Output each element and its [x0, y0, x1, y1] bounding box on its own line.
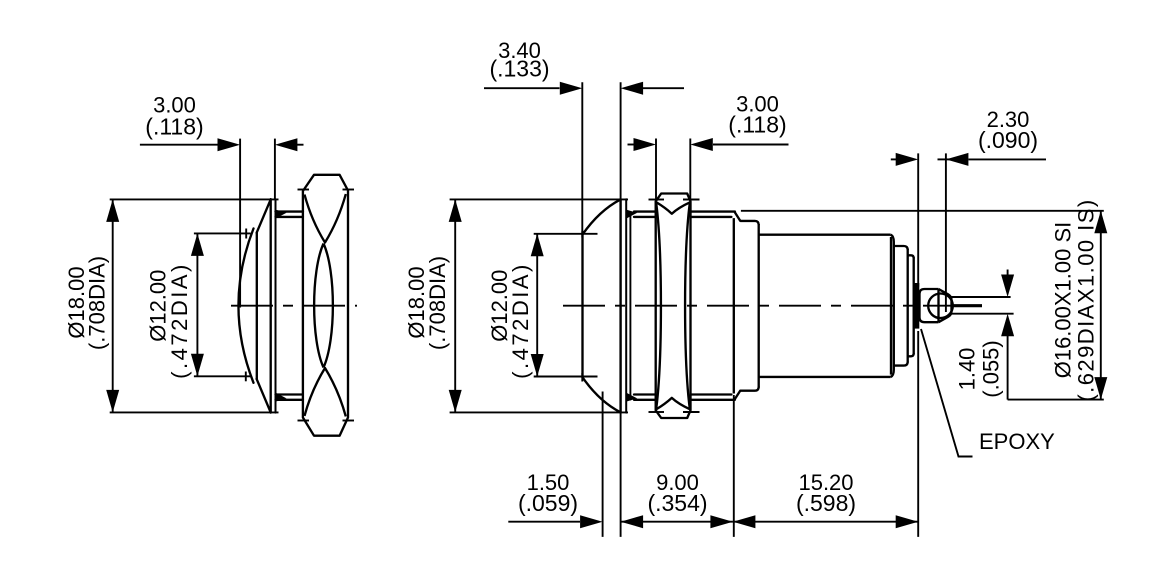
right view nut chamfer tick top right [683, 199, 700, 201]
right view terminal hex tip [939, 289, 952, 322]
dim Ø18 right: arrow up [449, 199, 462, 222]
dim Ø18 right: top extension line [450, 198, 628, 200]
dim 3.00 right: arrow left-pointing [690, 138, 713, 151]
dim 2.30: cross tick [938, 158, 954, 160]
dim 3.40: arrow left-pointing [621, 82, 644, 95]
right view epoxy fill band [914, 283, 919, 329]
dim Ø12 right: arrow down [531, 354, 544, 377]
right view collar top [740, 221, 759, 225]
dim Ø18 right: bottom extension line [450, 411, 628, 413]
right view terminal pin [952, 304, 983, 307]
svg-text:(.059): (.059) [518, 490, 578, 516]
right view ring2 face [907, 249, 909, 363]
dim 2.30: tail right [969, 158, 1047, 160]
left view hex nut outline [303, 175, 348, 436]
dim 1.40: top extension line [952, 296, 1011, 298]
dim Ø16 thread: arrow up [1094, 211, 1107, 234]
dim Ø12 left: arc tick top [245, 229, 247, 239]
dim 2.30: extension line terminal [945, 153, 947, 312]
dim 3.00 right: arrow right-pointing [634, 138, 657, 151]
right view thread chamfer wedge bottom [626, 393, 637, 402]
left view thread chamfer wedge top [276, 210, 287, 219]
svg-text:(.055): (.055) [979, 340, 1004, 397]
svg-text:(.133): (.133) [489, 56, 549, 82]
left view thread neck bottom lines [276, 393, 303, 395]
svg-text:(.598): (.598) [796, 490, 856, 516]
dim Ø18 right: arrow down [449, 390, 462, 413]
right view hex nut outline [656, 194, 691, 419]
left view nut chamfer tick top left [298, 189, 310, 191]
right view flange front face [619, 199, 621, 412]
left view lens cone bottom slant [257, 379, 271, 413]
right view thread neck lines bottom (flange to nut) [634, 393, 656, 395]
epoxy leader line [921, 329, 973, 457]
bottom dims: dimension line 15.20 [733, 521, 918, 523]
left view nut chamfer tick bottom right [343, 420, 355, 422]
right view nut bottom chamfer arc [656, 398, 690, 409]
dim Ø16 thread: dimension line [1100, 211, 1102, 400]
dim Ø12 right: bottom extension line [534, 376, 598, 378]
dim Ø12 left: bottom extension line [194, 375, 251, 377]
dim Ø16 thread: bottom extension line [1008, 399, 1104, 401]
dim Ø12 left: dimension line [196, 233, 198, 376]
dim Ø12 left: arrow up [191, 233, 204, 256]
svg-text:Ø16.00X1.00 SI: Ø16.00X1.00 SI [1051, 222, 1076, 379]
right view nut chamfer tick bottom left [649, 411, 665, 413]
bottom dims: extension line lens skirt [602, 392, 604, 537]
svg-text:(.472DIA): (.472DIA) [167, 262, 192, 379]
right view nut right facet curve [685, 203, 690, 409]
left view nut middle facet left curve [314, 244, 323, 368]
dim 1.50: arrow right-pointing [580, 515, 603, 528]
dim 3.00 left: arrow right-pointing [218, 138, 241, 151]
right view thread chamfer wedge top [626, 210, 637, 219]
left view lens base edge [256, 233, 258, 379]
dim 1.40: arrow up [1001, 314, 1014, 337]
dim Ø18 left: bottom extension line [110, 411, 279, 413]
dim 1.40: arrow down [1001, 275, 1014, 298]
dim Ø18 left: arrow up [106, 199, 119, 222]
dim Ø12 right: arrow up [531, 234, 544, 256]
svg-text:EPOXY: EPOXY [979, 429, 1055, 454]
dim 3.40: extension line lens face [581, 82, 583, 237]
dim 2.30: tail left [891, 158, 897, 160]
dim Ø12 left: arc tick bottom [245, 372, 247, 382]
svg-text:(.118): (.118) [145, 114, 203, 140]
right view can rear inner line [890, 237, 892, 375]
right view terminal stadium body [920, 289, 939, 322]
right view lens dome bottom slant [583, 377, 621, 412]
right view ring3 face [913, 257, 915, 354]
right view thread end chamfer bottom [735, 391, 740, 399]
dim 1.40: bottom extension line [952, 313, 1014, 315]
dim 3.00 right: tail right [713, 144, 789, 146]
right view terminal joint line [937, 289, 939, 322]
dim 3.00 left: extension line at flange back [274, 139, 276, 199]
dim 1.40: upper arrow line [1007, 270, 1009, 276]
left view lens cone top slant [257, 199, 271, 232]
right view terminal ball circle [928, 294, 953, 319]
dim Ø18 left: top extension line [110, 198, 279, 200]
right view can front face [758, 224, 760, 388]
svg-text:(.354): (.354) [647, 490, 707, 516]
svg-text:1.40: 1.40 [955, 348, 980, 391]
right view lens front face [581, 232, 583, 376]
right view lens dome top slant [583, 199, 621, 234]
svg-text:(.090): (.090) [978, 127, 1038, 153]
bottom dims: dimension line 9.00 [621, 521, 733, 523]
left view flange front face [270, 199, 272, 412]
dim 3.00 right: extension line nut right [689, 139, 691, 200]
dim 3.40: arrow right-pointing [560, 82, 583, 95]
left view nut chamfer tick bottom left [298, 420, 310, 422]
left view nut bottom chamfer arc [305, 368, 346, 416]
dim Ø18 left: dimension line [112, 199, 114, 412]
dim Ø12 left: arrow down [191, 354, 204, 377]
right view can bottom edge [759, 376, 891, 378]
dim 3.40: dimension line tail left [484, 87, 560, 89]
dim Ø18 right: dimension line [454, 199, 456, 412]
dim 3.00 left: arrow left-pointing [275, 138, 298, 151]
left view flange back face [275, 199, 277, 412]
dim 2.30: extension line epoxy face [917, 153, 919, 286]
right view thread end chamfer top [735, 212, 740, 220]
dim 3.40: tail right [642, 87, 684, 89]
right view can rear face with chamfers [891, 235, 894, 377]
dim 2.30: arrow right-pointing [896, 153, 919, 166]
svg-text:(.472DIA): (.472DIA) [508, 262, 533, 379]
dim 3.40: lens face lower stub [581, 373, 583, 382]
bottom dims: tail left of 1.50 [508, 521, 580, 523]
right view collar bottom [740, 387, 759, 391]
right view can top edge [759, 234, 891, 236]
dim 15.20: arrow left-pointing [733, 515, 756, 528]
dim Ø18 left: arrow down [106, 390, 119, 413]
right view nut chamfer tick top left [649, 199, 665, 201]
dim Ø16 thread: top extension line [741, 210, 1104, 212]
bottom dims: extension line epoxy face (below) [917, 331, 919, 537]
dim 15.20: arrow right-pointing [896, 515, 919, 528]
svg-text:(.708DIA): (.708DIA) [425, 256, 450, 350]
dim 3.00 right: tail left [628, 144, 634, 146]
right view ring3 bottom [908, 353, 914, 356]
svg-text:(.629DIAX1.00 IS): (.629DIAX1.00 IS) [1074, 198, 1099, 401]
left view nut top chamfer arc [305, 194, 346, 243]
dim Ø12 left: top extension line [194, 232, 251, 234]
left view nut chamfer tick top right [343, 189, 355, 191]
dim 9.00: arrow right-pointing [710, 515, 733, 528]
bottom dims: extension line bushing face (below) [733, 395, 735, 537]
right view ring3 top [908, 255, 914, 258]
right view thread neck lines bottom (nut to bushing) [691, 399, 735, 401]
dim Ø12 right: top extension line [534, 233, 598, 235]
left view thread neck top lines [276, 210, 303, 212]
dim 3.00 left: extension line at dome apex [239, 139, 241, 308]
right view gasket line [629, 212, 631, 400]
right view ring2 top [894, 246, 908, 250]
left view thread chamfer wedge bottom [276, 393, 287, 402]
dim 3.00 right: extension line nut left [655, 139, 657, 200]
right view nut chamfer tick bottom right [683, 411, 700, 413]
left view lens dome arc [238, 229, 253, 383]
right view centerline [563, 305, 952, 307]
svg-text:(.118): (.118) [728, 112, 786, 138]
dim 3.00 left: tail right [297, 144, 304, 146]
dim 1.40: lower arrow line [1007, 336, 1009, 400]
left view nut middle facet right curve [324, 244, 333, 368]
right view nut top chamfer arc [656, 202, 690, 213]
right view thread neck lines top (flange to nut) [634, 210, 656, 212]
dim 2.30: arrow left-pointing [946, 153, 969, 166]
dim Ø12 right: dimension line [536, 234, 538, 377]
dim 3.00 left: dimension line left part [140, 144, 218, 146]
right view flange back face [625, 199, 627, 412]
dim 3.40: extension at flange (upper) [620, 82, 622, 199]
dim Ø16 thread: arrow down [1094, 377, 1107, 400]
dim 9.00: arrow left-pointing [621, 515, 644, 528]
right view bushing end face [733, 218, 735, 393]
bottom dims: extension line flange front (below) [620, 413, 622, 537]
left view centerline [231, 305, 357, 307]
svg-text:(.708DIA): (.708DIA) [85, 256, 110, 350]
right view thread neck lines top (nut to bushing) [691, 210, 735, 212]
right view nut left facet curve [656, 203, 661, 409]
right view ring2 bottom [894, 362, 908, 366]
